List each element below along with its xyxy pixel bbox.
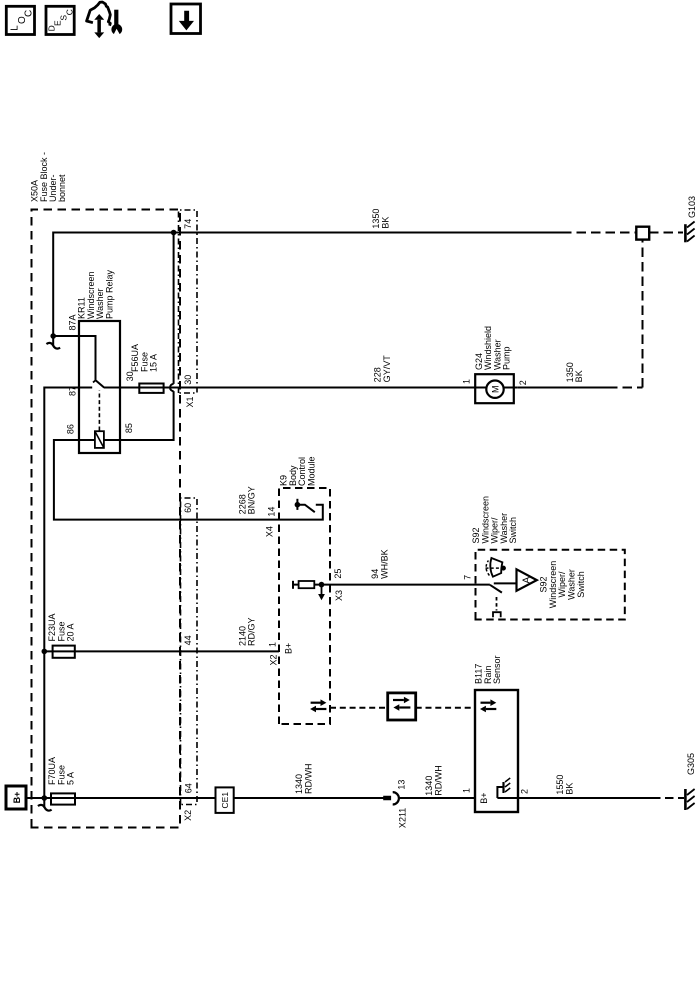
svg-text:64: 64 — [184, 783, 194, 793]
svg-text:5 A: 5 A — [66, 772, 76, 785]
svg-text:A: A — [522, 577, 533, 584]
svg-text:Sensor: Sensor — [492, 655, 502, 684]
svg-text:RD/WH: RD/WH — [304, 764, 314, 795]
svg-text:13: 13 — [396, 780, 406, 790]
svg-text:X4: X4 — [265, 526, 275, 537]
svg-text:87: 87 — [68, 386, 78, 396]
svg-text:2: 2 — [520, 789, 530, 794]
svg-text:Pump Relay: Pump Relay — [104, 269, 114, 319]
svg-text:2: 2 — [518, 380, 528, 385]
svg-text:G305: G305 — [686, 753, 696, 775]
svg-text:C: C — [23, 10, 34, 17]
svg-text:L: L — [9, 25, 20, 31]
svg-text:bonnet: bonnet — [57, 174, 67, 202]
svg-text:X2: X2 — [183, 810, 193, 821]
svg-text:X1: X1 — [185, 396, 195, 407]
svg-text:30: 30 — [183, 375, 193, 385]
svg-text:BK: BK — [574, 370, 584, 382]
svg-text:14: 14 — [267, 507, 277, 517]
svg-text:25: 25 — [333, 569, 343, 579]
svg-text:C: C — [65, 9, 75, 15]
svg-text:CE1: CE1 — [220, 792, 230, 809]
svg-text:X3: X3 — [334, 590, 344, 601]
svg-text:BN/GY: BN/GY — [247, 486, 257, 514]
svg-text:74: 74 — [183, 219, 193, 229]
svg-text:Pump: Pump — [502, 346, 512, 370]
svg-text:86: 86 — [65, 424, 75, 434]
svg-text:X211: X211 — [397, 808, 407, 828]
svg-text:15 A: 15 A — [149, 354, 159, 372]
svg-text:G103: G103 — [687, 196, 697, 218]
svg-text:1: 1 — [462, 788, 472, 793]
svg-text:87A: 87A — [68, 314, 78, 330]
svg-text:BK: BK — [381, 217, 391, 229]
svg-text:44: 44 — [183, 635, 193, 645]
svg-text:7: 7 — [462, 575, 472, 580]
svg-text:Module: Module — [306, 456, 316, 486]
svg-text:B+: B+ — [479, 792, 489, 803]
svg-text:60: 60 — [183, 503, 193, 513]
svg-text:GY/VT: GY/VT — [382, 355, 392, 383]
svg-text:S: S — [59, 15, 69, 21]
svg-text:D: D — [47, 25, 57, 31]
svg-text:RD/GY: RD/GY — [247, 617, 257, 646]
svg-text:85: 85 — [124, 423, 134, 433]
svg-text:Switch: Switch — [508, 517, 518, 544]
svg-text:Switch: Switch — [576, 571, 586, 598]
svg-text:30: 30 — [125, 371, 135, 381]
svg-text:X2: X2 — [269, 655, 279, 666]
svg-text:BK: BK — [564, 783, 574, 795]
svg-text:RD/WH: RD/WH — [434, 765, 444, 796]
svg-text:M: M — [490, 385, 500, 393]
svg-text:1: 1 — [268, 642, 278, 647]
svg-text:1: 1 — [462, 379, 472, 384]
svg-text:B+: B+ — [284, 643, 294, 654]
svg-text:O: O — [17, 16, 28, 24]
svg-text:20 A: 20 A — [66, 623, 76, 641]
svg-text:B+: B+ — [12, 792, 22, 804]
svg-text:WH/BK: WH/BK — [379, 549, 389, 579]
svg-text:E: E — [53, 20, 63, 26]
